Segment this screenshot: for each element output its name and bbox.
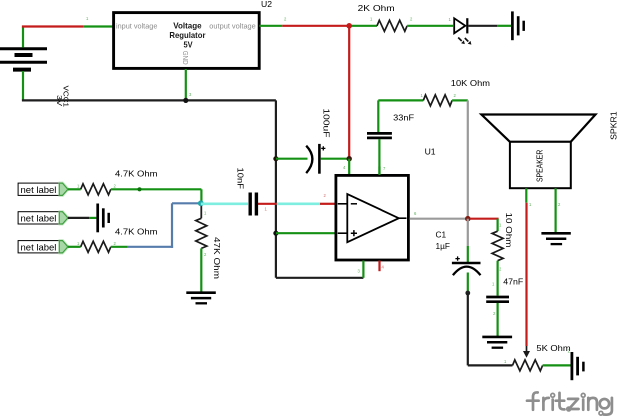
svg-text:1µF: 1µF [436, 241, 450, 251]
svg-text:net label: net label [21, 185, 57, 196]
svg-text:47K Ohm: 47K Ohm [212, 237, 222, 279]
svg-text:47nF: 47nF [503, 277, 523, 287]
svg-text:input voltage: input voltage [116, 21, 157, 30]
svg-text:100uF: 100uF [322, 109, 332, 138]
svg-text:2K Ohm: 2K Ohm [358, 3, 395, 13]
svg-text:C1: C1 [436, 230, 447, 240]
svg-text:4.7K Ohm: 4.7K Ohm [115, 227, 158, 237]
svg-text:U1: U1 [425, 146, 436, 156]
svg-text:SPEAKER: SPEAKER [535, 150, 545, 182]
svg-text:4.7K Ohm: 4.7K Ohm [115, 169, 158, 179]
svg-text:5V: 5V [184, 40, 193, 50]
svg-text:SPKR1: SPKR1 [608, 111, 618, 140]
svg-text:10nF: 10nF [236, 168, 246, 190]
svg-text:output voltage: output voltage [209, 21, 256, 30]
svg-text:10K Ohm: 10K Ohm [451, 78, 490, 88]
svg-text:10 Ohm: 10 Ohm [504, 213, 514, 248]
svg-text:net label: net label [21, 214, 57, 225]
svg-text:Voltage: Voltage [173, 21, 202, 31]
svg-text:U2: U2 [261, 0, 272, 9]
svg-text:5K Ohm: 5K Ohm [536, 343, 570, 353]
svg-text:net label: net label [21, 243, 57, 254]
svg-text:33nF: 33nF [393, 112, 414, 122]
svg-text:GND: GND [181, 51, 190, 65]
